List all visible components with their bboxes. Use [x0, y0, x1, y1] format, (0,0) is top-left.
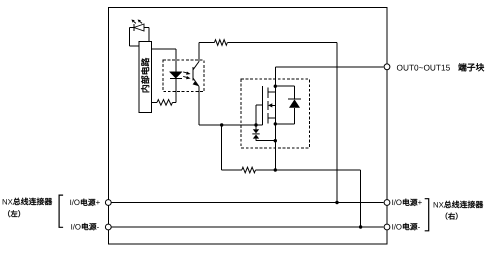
svg-text:I/O: I/O — [71, 222, 81, 231]
resistor R3 (gate-source) — [222, 169, 242, 171]
opto phototransistor — [192, 67, 194, 81]
svg-text:I/O: I/O — [70, 198, 80, 207]
wire: gate-source resistor branch — [221, 125, 223, 170]
wire: internal circuit to optocoupler anode — [152, 48, 177, 50]
svg-text:+: + — [96, 198, 101, 207]
wire: main vertical (drain node) — [274, 67, 276, 170]
resistor R2 (pull-up) — [199, 42, 214, 44]
opto LED — [170, 72, 183, 78]
wire — [175, 79, 177, 103]
svg-text:OUT0~OUT15: OUT0~OUT15 — [397, 62, 451, 72]
transistor Q1 output MOSFET — [262, 86, 264, 125]
svg-text:+: + — [418, 198, 423, 207]
terminal OUT0~OUT15 — [384, 64, 390, 70]
wire: I/O power - rail — [111, 226, 384, 228]
MOSFET protection dashed box — [241, 79, 309, 148]
terminal I/O power + (left) — [105, 200, 111, 206]
terminal I/O power - (left) — [105, 224, 111, 230]
terminal I/O power - (right) — [384, 224, 390, 230]
svg-text:I/O: I/O — [392, 198, 402, 207]
svg-text:-: - — [418, 222, 421, 231]
svg-text:-: - — [97, 222, 100, 231]
zener/TVS diode D3 (bidirectional) — [255, 125, 257, 129]
wire: collector up — [198, 43, 200, 62]
wire: OUT — [275, 66, 383, 68]
optocoupler U1 — [163, 60, 204, 92]
svg-text:I/O: I/O — [392, 222, 402, 231]
opto light arrows — [183, 72, 187, 78]
left bracket — [59, 195, 63, 227]
right bracket — [425, 199, 429, 231]
terminal I/O power + (right) — [384, 200, 390, 206]
resistor R1 (opto input) — [152, 101, 158, 103]
wire: indicator loop — [129, 27, 134, 29]
indicator LED — [134, 24, 144, 31]
wire: gate L-branch — [255, 105, 257, 125]
svg-text:NX: NX — [2, 197, 14, 206]
LED light arrows — [134, 22, 142, 24]
wire: pull-up to +rail — [336, 43, 338, 203]
module outline — [108, 8, 387, 245]
internal circuit block — [139, 42, 152, 113]
wire: emitter to gate — [198, 87, 200, 126]
diode D2 (flyback) — [275, 85, 294, 87]
wire: I/O power + rail — [111, 202, 384, 204]
svg-text:NX: NX — [433, 200, 445, 209]
